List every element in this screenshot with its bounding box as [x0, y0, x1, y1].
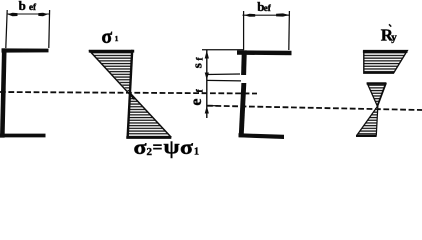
svg-text:1: 1 [194, 147, 199, 158]
svg-text:s: s [190, 63, 205, 68]
svg-text:=: = [153, 137, 163, 157]
svg-text:b: b [19, 0, 26, 13]
svg-text:y: y [391, 31, 397, 43]
svg-text:σ: σ [134, 137, 147, 159]
svg-text:1: 1 [115, 34, 119, 43]
svg-text:σ: σ [180, 137, 193, 159]
svg-text:e: e [188, 98, 205, 105]
svg-text:ψ: ψ [164, 137, 180, 159]
svg-text:ef: ef [264, 3, 272, 13]
svg-text:σ: σ [101, 24, 112, 48]
svg-text:ef: ef [29, 2, 37, 12]
